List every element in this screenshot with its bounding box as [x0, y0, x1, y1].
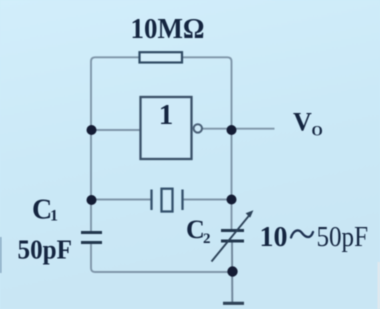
svg-text:1: 1	[159, 99, 174, 131]
svg-text:2: 2	[203, 231, 211, 247]
crystal left plate	[150, 190, 152, 211]
wire inverter output to Vo	[202, 128, 275, 130]
node crystal left junction	[87, 195, 97, 205]
node input junction	[87, 125, 97, 135]
ground	[223, 302, 244, 305]
svg-text:1: 1	[50, 208, 58, 225]
svg-text:C: C	[186, 215, 205, 244]
inverter U1 box	[141, 97, 192, 159]
capacitor C2 bottom plate	[221, 240, 244, 243]
node ground junction	[227, 266, 237, 276]
wire right rail with top corner from resistor	[182, 57, 232, 230]
photo edge artifact bottom-right	[378, 262, 380, 309]
crystal right plate	[181, 190, 183, 211]
wire left rail with top corner to resistor	[91, 57, 140, 232]
capacitor C2 top plate	[221, 229, 244, 232]
inverter U1 output bubble	[194, 124, 202, 132]
photo edge artifact left	[0, 237, 2, 273]
svg-text:10: 10	[260, 222, 288, 253]
wire crystal right	[183, 199, 232, 201]
svg-text:50pF: 50pF	[317, 222, 369, 253]
capacitor C1 bottom plate	[81, 241, 102, 244]
resistor R 10M	[140, 52, 183, 62]
wire crystal left	[91, 199, 151, 201]
wire right rail below C2 to ground stem	[231, 241, 233, 302]
svg-text:O: O	[312, 124, 323, 140]
wire inverter input	[91, 129, 141, 131]
svg-text:50pF: 50pF	[18, 235, 73, 265]
svg-text:10MΩ: 10MΩ	[131, 13, 205, 45]
node crystal right junction	[227, 195, 237, 205]
wire left rail below C1 with bottom corner	[91, 243, 233, 273]
crystal body	[162, 189, 173, 212]
capacitor C2 variable arrow	[212, 210, 254, 261]
svg-text:V: V	[293, 108, 312, 137]
node output junction	[227, 125, 237, 135]
capacitor C1 top plate	[81, 231, 102, 234]
